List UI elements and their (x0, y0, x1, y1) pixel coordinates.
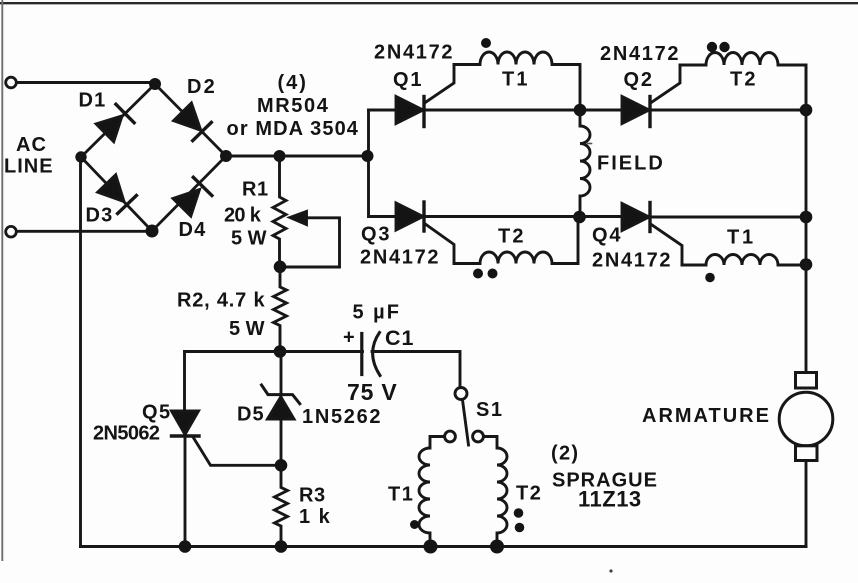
svg-text:T2: T2 (730, 69, 758, 91)
svg-text:R1: R1 (242, 179, 269, 201)
phasing dot T2 bottom b (488, 269, 498, 279)
svg-text:D4: D4 (179, 219, 207, 241)
svg-text:11Z13: 11Z13 (578, 487, 642, 512)
svg-text:2N4172: 2N4172 (600, 43, 680, 65)
wire control bus y=351.5 (185, 350, 363, 353)
stray mark (609, 569, 612, 572)
svg-text:2N4172: 2N4172 (592, 250, 672, 272)
transformer T2 primary coil (484, 437, 507, 547)
wire bridge edge D1 (81, 84, 155, 157)
svg-text:+: + (343, 327, 355, 349)
armature motor (779, 373, 833, 461)
node R1 bottom (274, 261, 287, 274)
phasing dot T2 top a (707, 42, 717, 52)
border frame left (1, 0, 3, 560)
diode D2 (174, 103, 212, 141)
terminal bottom AC (6, 226, 17, 237)
svg-text:or MDA 3504: or MDA 3504 (227, 118, 360, 140)
svg-text:D2: D2 (187, 76, 217, 98)
svg-text:20 k: 20 k (224, 205, 262, 227)
wire bottom AC to bridge (17, 230, 150, 233)
node bridge right (220, 150, 232, 162)
wire Q2 cathode to rail (650, 109, 806, 112)
svg-text:(4): (4) (278, 72, 308, 94)
wire top AC to bridge (17, 81, 152, 84)
svg-text:FIELD: FIELD (597, 153, 665, 175)
node field top (574, 104, 587, 117)
diode D4 (173, 177, 212, 216)
transformer T1 primary coil (419, 437, 444, 547)
node bottom rail T2 (490, 540, 504, 554)
winding T2 top (680, 52, 806, 110)
SCR Q1 (396, 65, 454, 127)
svg-text:C1: C1 (385, 326, 414, 350)
phasing dot T2 coil upper (514, 508, 524, 518)
wire right rail (805, 65, 808, 373)
svg-text:75 V: 75 V (347, 379, 398, 405)
svg-text:T2: T2 (498, 226, 526, 248)
svg-text:5 W: 5 W (229, 318, 265, 340)
svg-text:MR504: MR504 (257, 95, 329, 117)
svg-text:2N5062: 2N5062 (93, 423, 160, 445)
wire left SCR rail (367, 110, 370, 217)
node R1 top (274, 150, 286, 162)
svg-text:1N5262: 1N5262 (302, 406, 382, 428)
svg-text:T2: T2 (516, 483, 542, 505)
svg-text:ARMATURE: ARMATURE (642, 405, 771, 427)
diode D1 (96, 104, 134, 141)
svg-text:T1: T1 (502, 69, 530, 91)
resistor R3 (275, 465, 288, 546)
winding T1 top (454, 52, 580, 110)
svg-text:LINE: LINE (4, 156, 54, 178)
phasing dot T2 coil lower (515, 523, 525, 533)
phasing dot T1 bottom (705, 273, 715, 283)
resistor R1 (273, 156, 286, 267)
wire left rail down (79, 157, 82, 547)
wire DC bus y=156 (226, 155, 369, 158)
node rail left SCR (362, 150, 374, 162)
node field bottom (573, 211, 586, 224)
node bridge bottom (146, 225, 159, 238)
node rail top (800, 104, 813, 117)
wire C1 to S1 (372, 352, 460, 388)
svg-text:S1: S1 (476, 399, 503, 421)
node bottom rail T1 (424, 540, 438, 554)
node R2 bottom (274, 345, 287, 358)
svg-text:5 µF: 5 µF (353, 302, 401, 324)
node bridge left (75, 151, 86, 162)
svg-text:D5: D5 (237, 404, 265, 426)
svg-text:T1: T1 (727, 227, 756, 249)
wire Q1 cathode to field (424, 109, 622, 112)
border frame top (0, 2, 858, 4)
wiper arrow R1 (286, 212, 340, 268)
resistor R2 (274, 267, 287, 352)
svg-text:T1: T1 (388, 484, 414, 506)
wire Q3 cathode (424, 215, 622, 218)
svg-text:AC: AC (16, 134, 47, 156)
wire Q5 branch vertical (183, 352, 186, 412)
svg-text:R2, 4.7 k: R2, 4.7 k (177, 290, 265, 312)
svg-text:(2): (2) (551, 443, 579, 465)
svg-text:2N4172: 2N4172 (374, 42, 454, 64)
phasing dot T1 top (481, 38, 491, 48)
field coil (580, 110, 590, 217)
svg-text:D3: D3 (86, 205, 114, 227)
SCR Q2 (622, 65, 680, 127)
svg-text:R3: R3 (299, 485, 326, 507)
wire Q4 cathode (650, 216, 806, 219)
wire bridge edge D4 (152, 156, 226, 231)
wire bridge edge D2 (155, 84, 226, 156)
node bottom rail R3 (275, 540, 288, 553)
diode D3 (98, 175, 137, 214)
SCR Q5 (172, 411, 276, 547)
node bridge top (149, 78, 161, 90)
SCR Q4 (622, 203, 682, 266)
svg-text:Q1: Q1 (393, 69, 423, 91)
wire Q3 anode (369, 215, 397, 218)
svg-text:2N4172: 2N4172 (360, 247, 440, 269)
svg-text:1 k: 1 k (299, 506, 331, 528)
phasing dot T2 top b (719, 42, 729, 52)
switch S1 (445, 388, 484, 446)
svg-text:Q4: Q4 (592, 225, 622, 247)
phasing dot T1 coil (410, 520, 419, 529)
node rail mid (800, 211, 813, 224)
terminal top AC (6, 77, 17, 88)
svg-text:Q2: Q2 (624, 69, 654, 91)
stray tick near field coil (588, 143, 592, 145)
wire Q1 anode (369, 109, 397, 112)
wire bridge edge D3 (81, 157, 152, 231)
SCR Q3 (396, 202, 454, 264)
capacitor C1 (362, 333, 380, 376)
winding T2 bottom (454, 217, 578, 264)
winding T1 bottom (682, 255, 806, 265)
zener D5 (262, 352, 300, 466)
wire bottom rail (81, 545, 807, 548)
svg-text:D1: D1 (79, 90, 107, 112)
node bottom rail Q5 (179, 540, 192, 553)
svg-text:5 W: 5 W (231, 228, 267, 250)
phasing dot T2 bottom a (473, 269, 483, 279)
svg-text:Q3: Q3 (361, 224, 391, 246)
svg-text:Q5: Q5 (142, 402, 172, 424)
node D5/R3 gate junction (275, 459, 288, 472)
wire armature to bottom rail (805, 461, 808, 547)
node rail T1 bottom (800, 258, 813, 271)
